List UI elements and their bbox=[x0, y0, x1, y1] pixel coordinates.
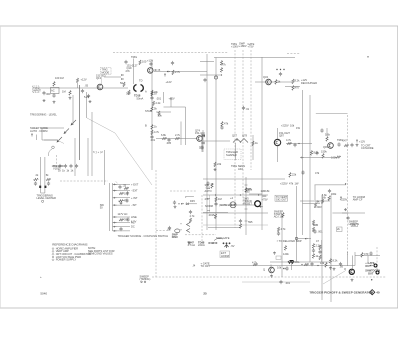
svg-text:HORIZ: HORIZ bbox=[221, 254, 229, 258]
wire: dashed y181 left bbox=[60, 180, 108, 182]
transistor Q93 bbox=[323, 143, 333, 149]
voltage label 75V bbox=[248, 42, 255, 49]
center: bracket up bbox=[186, 196, 194, 198]
svg-text:150: 150 bbox=[213, 241, 218, 245]
neon lamp B59 SWP DISC bbox=[172, 229, 180, 239]
dotted line y234.8 bbox=[185, 234, 216, 236]
capacitor C58 dark label bbox=[168, 226, 172, 232]
gate light label bbox=[219, 203, 236, 207]
bottom band: +GATE label bbox=[201, 262, 211, 269]
right col: right edge text bbox=[353, 195, 366, 202]
svg-text:REFERENCE DIAGRAMS: REFERENCE DIAGRAMS bbox=[52, 243, 87, 247]
svg-text:5.6k: 5.6k bbox=[325, 133, 331, 137]
right col: box pair low bbox=[337, 227, 343, 232]
svg-text:ADJ: ADJ bbox=[238, 167, 244, 171]
switch rung 2 parts bbox=[119, 191, 129, 195]
legend: item 3 bbox=[52, 252, 91, 256]
diode column D76 bbox=[199, 130, 204, 152]
right col: cap + 100k bbox=[328, 189, 337, 201]
svg-text:4.7mA: 4.7mA bbox=[188, 243, 196, 247]
bottom right: cap bbox=[339, 262, 344, 269]
svg-text:POWER SUPPLY: POWER SUPPLY bbox=[56, 258, 77, 262]
page left edge bbox=[0, 26, 2, 308]
svg-text:B: B bbox=[159, 68, 161, 72]
title block bbox=[309, 290, 380, 295]
svg-text:DECOUPLED: DECOUPLED bbox=[301, 81, 317, 85]
vert x104 bbox=[103, 150, 105, 185]
transistor Q13 emitter follower bbox=[96, 74, 106, 90]
vert x181 bbox=[180, 122, 182, 146]
wire: y179 center bbox=[203, 178, 285, 180]
sweep start box bbox=[275, 195, 288, 202]
switch rung 4 bbox=[113, 203, 138, 207]
vert x209.5 faint bbox=[209, 195, 211, 213]
pot R110 LEVEL bbox=[34, 173, 51, 188]
resistor stack right bbox=[292, 79, 300, 91]
trigger shaper row: resistor R71 bbox=[161, 133, 167, 140]
wire: vert x207 bbox=[206, 54, 208, 230]
wire: vert x282 bbox=[281, 215, 283, 277]
extra band parts bbox=[310, 261, 327, 267]
svg-text:OUT: OUT bbox=[368, 271, 374, 275]
svg-text:10k: 10k bbox=[320, 261, 325, 265]
svg-text:+75V: +75V bbox=[248, 45, 254, 49]
right col: top feed wire bbox=[315, 183, 347, 185]
bottom band: arrow cap bbox=[283, 266, 289, 270]
legend: item 4 bbox=[52, 255, 81, 259]
wire: vert x86 bbox=[86, 92, 88, 118]
resistor R22 bbox=[126, 90, 131, 96]
wire shaper row bbox=[156, 138, 197, 140]
svg-text:AUTO · NORM: AUTO · NORM bbox=[30, 129, 47, 133]
right col: resistor stack low bbox=[312, 220, 318, 232]
label right of Q93 bbox=[337, 138, 349, 147]
svg-text:151-0127: 151-0127 bbox=[279, 131, 291, 135]
wire: vert x331 bbox=[330, 195, 332, 302]
node circle + hook bbox=[48, 141, 64, 157]
svg-text:1W: 1W bbox=[295, 182, 299, 186]
transistor Q34 bbox=[263, 75, 271, 85]
arrows into trigger gate bbox=[120, 74, 124, 85]
right col: box 10k bbox=[351, 223, 358, 227]
wire: dashed y191 bbox=[170, 190, 197, 192]
svg-text:SIG OUT: SIG OUT bbox=[276, 198, 287, 202]
wire: horiz y57.5 bbox=[214, 57, 295, 59]
bottom right: OUT cluster dark bbox=[365, 261, 377, 268]
switch SW30 bank rails bbox=[109, 181, 117, 231]
right col: ground mid bbox=[344, 208, 347, 211]
vert x73 bbox=[72, 95, 74, 125]
vert x92 bbox=[91, 112, 93, 176]
vert x88 bbox=[87, 138, 89, 176]
sweep timing label bbox=[140, 275, 151, 283]
capacitor C68 bbox=[150, 135, 156, 142]
svg-text:Q: Q bbox=[263, 268, 265, 272]
svg-text:DC: DC bbox=[131, 225, 135, 229]
svg-text:.25: .25 bbox=[123, 183, 127, 187]
resistor R63 5k bbox=[151, 107, 158, 112]
right col: comp x303 y172 bbox=[301, 170, 319, 175]
dashed wire to disc bbox=[156, 230, 168, 232]
wire: vert x302.5 bbox=[302, 90, 304, 235]
wire: y205 bbox=[220, 204, 256, 206]
cap x205 y80 bbox=[203, 78, 206, 82]
wire: y82 right cluster bbox=[255, 81, 292, 83]
svg-text:10k: 10k bbox=[290, 124, 295, 128]
wire: y194 bbox=[249, 193, 262, 195]
svg-text:6.8k: 6.8k bbox=[265, 189, 271, 193]
neon B96 TRIG'D dark bbox=[255, 201, 263, 208]
pot vertical wires bbox=[41, 157, 45, 193]
connector J1 input bbox=[33, 86, 42, 93]
vert x75 bbox=[74, 138, 76, 176]
svg-text:4.7k: 4.7k bbox=[154, 130, 160, 134]
component x215 y215 bbox=[208, 213, 217, 218]
label +75V right bbox=[262, 195, 268, 201]
label TO DELAYED SWP bbox=[277, 239, 302, 243]
SW30 label bbox=[100, 203, 105, 210]
label 130 right bbox=[261, 189, 271, 193]
svg-text:+ EXT: + EXT bbox=[131, 182, 139, 186]
voltage label 180V bbox=[239, 41, 247, 48]
diode chain row y203.8 bbox=[173, 199, 197, 205]
resistor R91 bbox=[320, 128, 330, 141]
svg-text:.001: .001 bbox=[150, 138, 156, 142]
svg-text:.005: .005 bbox=[166, 141, 172, 145]
svg-text:47k: 47k bbox=[315, 171, 320, 175]
resistor R61 1k bbox=[145, 90, 157, 97]
svg-text:100: 100 bbox=[142, 60, 147, 64]
arrow left edge bbox=[301, 157, 304, 158]
svg-text:595: 595 bbox=[245, 190, 250, 194]
svg-text:470: 470 bbox=[295, 86, 300, 90]
bottom right: dark Q out bbox=[344, 267, 354, 281]
wire: y61.5 short bbox=[200, 61, 214, 63]
panel text block left bbox=[30, 126, 48, 137]
wire: vert dashed x347.5 bbox=[347, 115, 349, 255]
svg-text:+12V: +12V bbox=[169, 97, 175, 101]
svg-text:f ( ) + | 2: f ( ) + | 2 bbox=[93, 150, 103, 154]
svg-text:Q: Q bbox=[344, 267, 346, 271]
switch bottom note bbox=[118, 234, 169, 238]
svg-text:47k: 47k bbox=[224, 122, 229, 126]
right block box outline bbox=[316, 113, 348, 115]
svg-text:47k: 47k bbox=[205, 197, 210, 201]
footer 5040 bbox=[40, 291, 47, 295]
svg-text:18k: 18k bbox=[315, 199, 320, 203]
svg-text:2.7k: 2.7k bbox=[175, 133, 181, 137]
wire: box top y113.5 bbox=[316, 113, 347, 115]
ground mid low bbox=[273, 252, 281, 260]
dotted junction row bbox=[276, 69, 284, 76]
wire: faint y282 bbox=[242, 281, 310, 283]
page bottom edge bbox=[0, 307, 398, 309]
wire x277.5 above Q87 bbox=[277, 128, 279, 139]
svg-text:150k: 150k bbox=[321, 150, 327, 154]
svg-text:D76: D76 bbox=[199, 146, 204, 150]
cluster x222 y122 bbox=[220, 122, 228, 130]
triple contacts bbox=[223, 242, 235, 248]
svg-text:4.7k: 4.7k bbox=[190, 214, 196, 218]
right col: 18k bbox=[314, 199, 320, 208]
label 10k mid bbox=[158, 111, 163, 118]
svg-text:10k: 10k bbox=[124, 192, 129, 196]
footer plus mark bbox=[40, 275, 42, 279]
wire: vert x152 bbox=[151, 60, 153, 170]
resistor R67 bbox=[151, 130, 160, 135]
svg-text:.0015: .0015 bbox=[208, 213, 215, 217]
page number 25 bbox=[203, 292, 207, 296]
capacitor C72 bbox=[166, 138, 172, 145]
resistor R62 bbox=[152, 101, 161, 106]
diode chevron D55 bbox=[181, 229, 191, 233]
wire y112 bbox=[156, 111, 171, 113]
svg-text:AUTO: AUTO bbox=[205, 189, 212, 193]
svg-text:(GATE LIGHT): (GATE LIGHT) bbox=[219, 203, 236, 207]
selector box dashed bbox=[101, 68, 112, 85]
svg-text:TRIGGER SOURCE · COUPLING SWIT: TRIGGER SOURCE · COUPLING SWITCH bbox=[118, 234, 169, 238]
svg-text:SWP GATE: SWP GATE bbox=[216, 236, 230, 240]
ground below chain bbox=[174, 205, 177, 208]
wire y262 lower band bbox=[270, 261, 330, 263]
transistor Q87 dark ring bbox=[274, 131, 290, 146]
legend: item 5 bbox=[52, 258, 77, 262]
page right edge bbox=[397, 26, 399, 308]
panel text TRIGGERING LEVEL bbox=[30, 113, 57, 117]
+12V right bbox=[356, 140, 365, 144]
wire y195 center bbox=[203, 194, 268, 196]
resistor stack right low 1 bbox=[312, 244, 321, 259]
svg-text:DISC: DISC bbox=[172, 235, 178, 239]
svg-text:.001: .001 bbox=[285, 281, 291, 285]
wire y255.5 top right of band bbox=[355, 251, 380, 257]
svg-text:NORM: NORM bbox=[205, 204, 213, 208]
wire: trigger bus right segment bbox=[287, 53, 300, 55]
wire: vert x310 bbox=[309, 95, 311, 262]
svg-text:25: 25 bbox=[203, 292, 207, 296]
svg-text:+: + bbox=[40, 275, 42, 279]
svg-text:47k: 47k bbox=[289, 182, 294, 186]
capacitor C52 stack bbox=[189, 210, 195, 223]
wire x296.5 bbox=[296, 186, 298, 262]
switch rung 1 parts bbox=[118, 183, 128, 189]
wire y141 bbox=[200, 140, 230, 142]
wire: input chain y95 bbox=[39, 87, 128, 89]
svg-text:4.7k: 4.7k bbox=[286, 138, 292, 142]
capacitor C1 bbox=[42, 91, 51, 102]
node wire into TD bbox=[104, 76, 121, 78]
label TD18 dark bbox=[134, 94, 144, 101]
svg-text:≈ TO DELAYED SWP: ≈ TO DELAYED SWP bbox=[277, 239, 302, 243]
wire: vert x262 bbox=[261, 57, 263, 230]
svg-text:117V AC: 117V AC bbox=[118, 212, 128, 216]
arrow to B bbox=[155, 68, 161, 72]
svg-text:8.2k: 8.2k bbox=[333, 259, 339, 263]
svg-text:CATHODE: CATHODE bbox=[361, 146, 374, 150]
caps row AC coupling bbox=[52, 164, 79, 173]
svg-text:RESET: RESET bbox=[243, 202, 252, 206]
bottom right: dot bbox=[371, 279, 372, 280]
component upper right center bbox=[289, 173, 297, 178]
svg-text:+100V: +100V bbox=[231, 44, 239, 48]
cap cluster top left center bbox=[205, 181, 214, 189]
resistor R73 bbox=[175, 133, 181, 140]
test point TP bbox=[214, 76, 217, 79]
mode text column bbox=[243, 187, 252, 206]
wire: y201 right bbox=[300, 200, 330, 202]
labels under y262 bbox=[277, 266, 282, 270]
wire: y71.5 trigger row bbox=[154, 71, 207, 73]
svg-text:1M: 1M bbox=[218, 197, 222, 201]
resistor R66 bbox=[145, 124, 157, 130]
switch rung 6 bbox=[113, 221, 135, 225]
right col: wire y213b bbox=[332, 212, 348, 214]
svg-text:22k: 22k bbox=[217, 162, 222, 166]
svg-text:TD: TD bbox=[139, 79, 143, 83]
svg-text:120k: 120k bbox=[283, 252, 289, 256]
sweep start labels bbox=[274, 210, 285, 219]
wire y86.5 bbox=[285, 86, 300, 88]
curved arrow sweep gate bbox=[214, 236, 230, 241]
dark cluster TD reset 2 bbox=[198, 241, 205, 248]
svg-text:Q78: Q78 bbox=[242, 134, 247, 138]
dark cluster TD reset 1 bbox=[188, 241, 196, 248]
svg-text:10k: 10k bbox=[277, 266, 282, 270]
switch rung 3 bbox=[113, 196, 138, 200]
components lower right block bbox=[310, 150, 327, 159]
bottom band: vert x281 cap bbox=[279, 280, 290, 285]
bottom right: res + labels bbox=[329, 259, 338, 271]
wire: vert dashed x241 bbox=[242, 50, 244, 205]
svg-text:MODE: MODE bbox=[102, 70, 110, 74]
capacitor C7 bbox=[84, 94, 92, 103]
svg-text:AC: AC bbox=[131, 221, 135, 225]
label row +225V upper center bbox=[280, 182, 299, 186]
svg-text:Q34: Q34 bbox=[263, 75, 268, 79]
svg-text:- EXT: - EXT bbox=[131, 189, 138, 193]
dark cluster 3 bbox=[209, 241, 218, 245]
svg-text:AMP CF: AMP CF bbox=[353, 197, 363, 201]
svg-text:INPUT: INPUT bbox=[33, 89, 41, 93]
trigger shaper transistors Q77 Q78 bbox=[232, 134, 248, 143]
label right of pot top bbox=[53, 164, 64, 171]
svg-text:.001: .001 bbox=[156, 97, 162, 101]
junction dots y195 bbox=[215, 194, 259, 195]
short verticals feed Q out bbox=[348, 252, 368, 269]
extra center ticks/labels bbox=[205, 183, 222, 211]
svg-text:Q77: Q77 bbox=[232, 134, 237, 138]
svg-text:.05: .05 bbox=[85, 84, 89, 88]
svg-text:47k: 47k bbox=[124, 199, 129, 203]
dashed vert x56 bbox=[55, 155, 57, 169]
small parts on trig bus bbox=[124, 60, 222, 66]
svg-text:047: 047 bbox=[343, 139, 348, 143]
wire: y143.5 chain bbox=[286, 143, 312, 145]
sweep mode leads bbox=[37, 128, 43, 140]
vert dotted x202 bbox=[201, 195, 203, 245]
svg-text:LEVEL CENTER: LEVEL CENTER bbox=[37, 196, 56, 200]
svg-text:2.2k: 2.2k bbox=[156, 101, 162, 105]
resistor R4 bbox=[62, 90, 72, 100]
svg-text:A: A bbox=[145, 90, 147, 94]
resistor mid low bbox=[283, 246, 289, 257]
vert x246 bbox=[245, 177, 247, 235]
wire y238.7 w arrow bbox=[298, 238, 312, 239]
bottom right: sawtooth out dark bbox=[365, 269, 380, 276]
svg-text:6.8k: 6.8k bbox=[161, 133, 167, 137]
bottom band: 4.7k bbox=[252, 261, 258, 266]
legend: item 1 bbox=[52, 246, 78, 250]
svg-text:D45: D45 bbox=[190, 199, 195, 203]
svg-text:22mA: 22mA bbox=[198, 243, 205, 247]
pot label TRIGGERING LEVEL CENTER bbox=[37, 193, 56, 202]
wire: vert dashed x235 bbox=[234, 50, 236, 228]
svg-text:595: 595 bbox=[248, 220, 253, 224]
wire: switch gang diagonal bbox=[87, 118, 152, 185]
voltage label 100V bbox=[231, 42, 239, 49]
switch rung 1 bbox=[113, 182, 139, 186]
label row y166 bbox=[231, 164, 245, 171]
wire y225 center faint bbox=[203, 224, 268, 226]
svg-text:←-90V: ←-90V bbox=[314, 205, 322, 209]
svg-text:5040: 5040 bbox=[40, 291, 47, 295]
wire: vert x216 bbox=[215, 58, 217, 231]
wire: main trigger bus dashed y54 bbox=[113, 52, 228, 54]
svg-text:2.7k: 2.7k bbox=[175, 70, 181, 74]
vert x235.5 below shapers bbox=[235, 143, 237, 160]
wire x315 short bbox=[314, 185, 316, 200]
svg-text:1M: 1M bbox=[60, 76, 64, 80]
svg-text:22k: 22k bbox=[292, 173, 297, 177]
wire y213 center bbox=[203, 212, 268, 214]
page top edge bbox=[0, 25, 398, 27]
svg-text:+12V: +12V bbox=[359, 140, 365, 144]
svg-text:100k: 100k bbox=[331, 192, 337, 196]
svg-text:470: 470 bbox=[364, 252, 369, 256]
capacitor C3 bbox=[52, 93, 55, 103]
ticks on x246 bbox=[245, 185, 253, 221]
cap x243 y108 bbox=[242, 106, 250, 111]
svg-text:4.7k: 4.7k bbox=[281, 227, 287, 231]
svg-text:1M: 1M bbox=[62, 90, 66, 94]
wire: y75.5 bbox=[200, 74, 222, 76]
svg-text:TO CRT: TO CRT bbox=[201, 264, 211, 268]
label 100k lower bbox=[331, 156, 341, 160]
transistor Q74 bbox=[195, 129, 205, 142]
svg-text:40: 40 bbox=[376, 291, 380, 295]
svg-text:.05: .05 bbox=[339, 265, 343, 269]
wire: vert dashed x250 bbox=[250, 50, 252, 170]
resistor R36 bbox=[275, 80, 281, 85]
svg-text:(TIMING): (TIMING) bbox=[140, 277, 151, 281]
bottom right: diagonal bbox=[323, 271, 345, 284]
+12V label top right bbox=[301, 78, 317, 85]
node circle on x296 bbox=[295, 237, 297, 239]
svg-text:V1033: V1033 bbox=[53, 166, 61, 170]
svg-text:8.2k: 8.2k bbox=[295, 79, 301, 83]
right col: resistor 5.6k bbox=[321, 193, 327, 204]
svg-text:Q19: Q19 bbox=[127, 66, 132, 70]
switch rung 3 parts bbox=[119, 198, 129, 204]
bottom band: dark bars bbox=[290, 260, 301, 270]
legend: item 2 bbox=[52, 249, 69, 253]
diode chevron D54 bbox=[181, 223, 191, 227]
resistor R47 47k bbox=[220, 63, 226, 76]
cap to output right bbox=[350, 143, 373, 150]
svg-text:+180V: +180V bbox=[239, 44, 247, 48]
switch rung 7 bbox=[113, 225, 135, 232]
svg-text:-5V: -5V bbox=[231, 244, 235, 248]
